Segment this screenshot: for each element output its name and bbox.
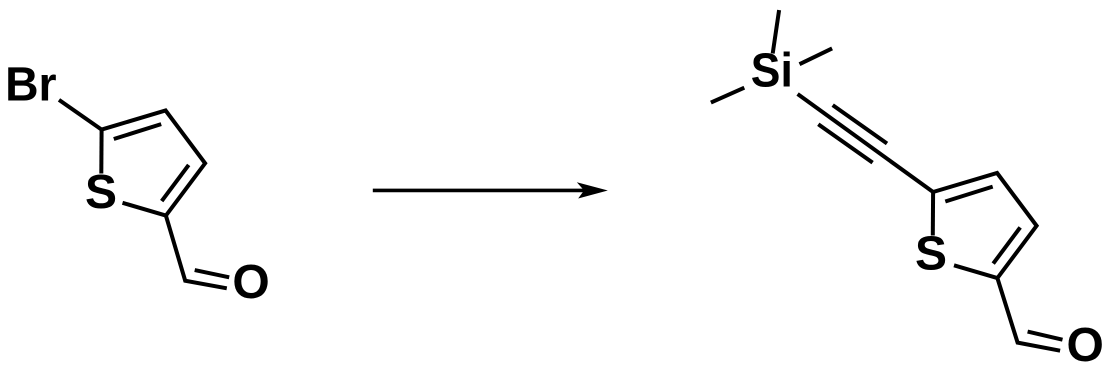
bond S-C5 [99, 130, 103, 174]
svg-text:Br: Br [5, 59, 57, 112]
bond C3'=C2' inner double line [993, 227, 1020, 263]
reaction arrow head [578, 183, 606, 198]
bond Si-C#C-C5' chain central line [798, 94, 934, 192]
bond C2-S [123, 203, 166, 216]
bond C5'=C4' inner double line [945, 187, 992, 202]
bond chain C5'-C4'-C3'-C2' and C2'-CHO' and C=O' main line [933, 173, 1060, 351]
bond Si-methyl top [773, 10, 779, 53]
bond C=O second line (upper) [195, 270, 230, 277]
bond chain C5-C4-C3-C2 and C2-CHO and C=O main line [102, 111, 227, 289]
bond C=O' second line (upper) [1028, 332, 1063, 340]
bond Br-C5 [59, 100, 102, 130]
bond Si-methyl left [711, 88, 744, 103]
bond C3=C2 inner double line [162, 165, 189, 201]
bond C2'-S' [954, 265, 997, 278]
bond S'-C5' [931, 192, 935, 236]
svg-text:Si: Si [751, 44, 793, 97]
alkyne triple bond lower line [818, 124, 872, 162]
svg-text:S: S [915, 228, 947, 281]
bond C5=C4 inner double line [114, 124, 161, 139]
bond Si-methyl right [800, 48, 833, 64]
reaction arrow shaft [373, 189, 592, 193]
svg-text:O: O [1067, 319, 1104, 372]
svg-text:O: O [232, 256, 269, 309]
svg-text:S: S [85, 166, 117, 219]
alkyne triple bond upper line [833, 105, 887, 143]
